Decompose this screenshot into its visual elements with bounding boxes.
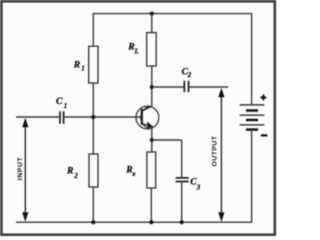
wire collector node to C2 xyxy=(152,86,184,88)
wire top rail to RL xyxy=(151,14,153,33)
wire bottom ground rail xyxy=(16,221,252,223)
wire C1 to transistor base xyxy=(65,116,142,118)
battery - terminal label xyxy=(261,134,268,136)
INPUT label xyxy=(17,157,24,181)
resistor Re xyxy=(147,152,156,188)
wire R1 branch top xyxy=(92,13,94,46)
svg-text:2: 2 xyxy=(187,72,192,79)
svg-text:3: 3 xyxy=(196,185,201,192)
capacitor C2 value label xyxy=(182,67,192,79)
wire C3 branch down xyxy=(181,140,183,177)
svg-text:C: C xyxy=(56,96,63,107)
wire base node to R2 xyxy=(92,117,94,154)
capacitor C2 xyxy=(184,81,188,92)
transistor Q1 xyxy=(136,106,159,129)
wire R2 bottom to ground rail xyxy=(92,187,94,222)
output measurement arrow xyxy=(218,88,224,222)
OUTPUT label xyxy=(212,135,219,166)
wire C3 bottom to ground rail xyxy=(181,182,183,223)
svg-text:1: 1 xyxy=(81,66,84,73)
wire emitter node to C3 branch xyxy=(152,139,182,141)
wire battery bottom to bottom rail xyxy=(251,130,253,223)
wire RL bottom to collector node xyxy=(151,66,153,106)
wire right rail top to battery xyxy=(251,13,253,105)
capacitor C3 xyxy=(176,178,189,182)
wire top supply rail xyxy=(93,13,251,15)
svg-text:2: 2 xyxy=(73,173,78,180)
svg-text:e: e xyxy=(133,171,136,178)
svg-text:1: 1 xyxy=(64,103,67,110)
battery B1 xyxy=(240,105,265,130)
resistor R2 value label xyxy=(66,166,78,180)
wire emitter to emitter node xyxy=(151,127,153,140)
node Re ground junction xyxy=(149,220,153,224)
svg-text:OUTPUT: OUTPUT xyxy=(212,135,219,166)
resistor RL value label xyxy=(127,41,138,55)
resistor R2 xyxy=(89,154,98,187)
capacitor C3 value label xyxy=(190,177,201,192)
node base junction xyxy=(91,115,95,119)
node R2 ground junction xyxy=(91,220,95,224)
resistor R1 xyxy=(89,46,98,83)
wire emitter node to Re xyxy=(151,140,153,152)
svg-text:R: R xyxy=(66,166,74,177)
node emitter junction xyxy=(150,138,154,142)
wire input terminal xyxy=(16,116,59,118)
resistor R1 value label xyxy=(73,60,85,73)
svg-text:L: L xyxy=(134,48,139,55)
node collector junction xyxy=(150,85,154,89)
resistor Re value label xyxy=(125,164,135,178)
input measurement arrow xyxy=(22,118,28,222)
svg-text:INPUT: INPUT xyxy=(17,157,24,181)
wire R1 bottom to base node xyxy=(92,83,94,117)
wire Re bottom to ground rail xyxy=(150,188,152,222)
node C3 ground junction xyxy=(180,220,184,224)
resistor RL xyxy=(147,33,157,66)
capacitor C1 value label xyxy=(56,96,67,110)
battery + terminal label xyxy=(261,95,267,101)
svg-text:R: R xyxy=(73,60,81,71)
node top rail junction xyxy=(150,12,154,16)
capacitor C1 xyxy=(60,111,64,123)
wire C2 to output xyxy=(189,86,228,88)
